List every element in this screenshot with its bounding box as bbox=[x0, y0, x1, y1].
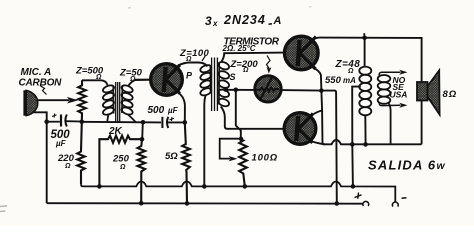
leader squiggle from mic label bbox=[40, 86, 47, 95]
wire V_C: T3 primary tap to upper rail bbox=[352, 87, 361, 187]
transformer T3 secondary winding bbox=[378, 75, 391, 104]
svg-text:500: 500 bbox=[148, 105, 165, 116]
svg-text:3: 3 bbox=[205, 14, 212, 28]
svg-text:2K: 2K bbox=[108, 126, 123, 137]
transformer T1 secondary bottom lead bbox=[128, 115, 136, 123]
svg-text:2Ω. 25°C: 2Ω. 25°C bbox=[222, 44, 256, 53]
junction V_C on common line bbox=[350, 142, 355, 147]
transistor Q3 bbox=[284, 113, 316, 145]
label MIC. A CARBON bbox=[19, 67, 63, 89]
junction tap/pot branch bbox=[234, 88, 239, 93]
transformer T1 secondary winding bbox=[121, 84, 134, 116]
junction Q2 emitter / thermistor bbox=[319, 88, 324, 93]
wire T3 primary bottom lead bbox=[364, 115, 366, 145]
scan speck top bbox=[128, 7, 131, 9]
svg-text:CARBON: CARBON bbox=[19, 78, 63, 89]
transformer T1 core bbox=[116, 82, 120, 122]
resistor 220 ohm bbox=[77, 122, 85, 185]
annotation NO SE USA bbox=[390, 75, 408, 100]
junction T3 primary bottom on common line bbox=[363, 142, 368, 147]
svg-text:Ω: Ω bbox=[185, 56, 192, 63]
wire Q2 emitter down (V_A) bbox=[312, 67, 323, 144]
wire Q1 collector to T2 primary bbox=[178, 63, 207, 67]
wire mic output with arrowhead to volume control bbox=[37, 99, 70, 101]
battery terminal minus bbox=[392, 202, 398, 207]
wire T1 secondary top to Q1 base bbox=[129, 80, 151, 86]
wire common node row y=122 bbox=[82, 121, 161, 124]
resistor 2K bbox=[99, 136, 142, 187]
wire T3 secondary bottom tap with arrow bbox=[379, 102, 400, 105]
leader squiggle to thermistor bbox=[267, 56, 271, 69]
transformer T1 primary top wire bbox=[82, 80, 108, 85]
title 3x 2N234-A bbox=[205, 13, 282, 28]
svg-text:Ω: Ω bbox=[242, 67, 249, 74]
svg-text:250: 250 bbox=[112, 154, 130, 165]
wire thermistor node to lower rail (V_B) bbox=[321, 91, 336, 204]
junction 5 ohm on lower rail bbox=[185, 201, 190, 206]
svg-text:S: S bbox=[230, 72, 236, 82]
svg-text:100Ω: 100Ω bbox=[252, 153, 278, 164]
volume control 500-ohm winding (zigzag with arrow tap) bbox=[78, 80, 86, 121]
capacitor C1 500uF bbox=[47, 114, 82, 127]
transistor Q2 bbox=[285, 36, 319, 70]
wire mic return (left vertical to lower rail) bbox=[33, 112, 47, 203]
svg-text:mA: mA bbox=[343, 76, 356, 85]
transformer T1 primary winding bbox=[102, 84, 115, 116]
lower rail (positive) bbox=[47, 202, 363, 205]
scan artifact bottom-left bbox=[0, 206, 7, 212]
thermistor TH bbox=[255, 76, 281, 102]
top rail bbox=[320, 38, 422, 82]
wire T2 secondary top to Q2 base bbox=[222, 53, 284, 62]
svg-text:x: x bbox=[212, 19, 218, 28]
node C junction bbox=[140, 137, 145, 142]
wire Q1 emitter down to node D bbox=[178, 93, 185, 123]
junction V_B on lower rail bbox=[335, 201, 340, 206]
junction 2K on upper rail bbox=[97, 184, 102, 189]
node A junction bbox=[80, 119, 85, 124]
svg-text:Ω: Ω bbox=[119, 164, 126, 171]
wire thermistor right to Q2 emitter node bbox=[281, 89, 321, 92]
junction V_C on upper rail bbox=[351, 184, 356, 189]
node T2 center tap bbox=[224, 87, 229, 92]
junction pot on upper rail bbox=[243, 184, 248, 189]
node D junction bbox=[183, 120, 188, 125]
speaker 8 ohm bbox=[417, 70, 440, 114]
leader tick Z=100 bbox=[202, 56, 205, 61]
node B junction bbox=[141, 120, 146, 125]
capacitor C2 500uF bbox=[162, 117, 174, 128]
transformer T2 core bbox=[212, 58, 218, 112]
upper rail (negative) bbox=[81, 182, 395, 203]
label TERMISTOR 2ohm 25C bbox=[222, 37, 280, 54]
svg-text:MIC. A: MIC. A bbox=[21, 67, 52, 78]
wire T3 secondary top tap with arrow bbox=[379, 72, 400, 76]
svg-text:Ω: Ω bbox=[347, 68, 354, 75]
svg-text:µF: µF bbox=[167, 106, 179, 115]
wire output stage common line y=144 bbox=[323, 140, 422, 144]
wire T2 primary bottom to upper rail bbox=[204, 96, 205, 187]
svg-text:550: 550 bbox=[325, 75, 342, 86]
speaker vertical line through driver bbox=[421, 100, 423, 144]
transistor Q1 bbox=[136, 64, 183, 96]
svg-text:8Ω: 8Ω bbox=[443, 89, 458, 100]
microphone MIC A (carbon) bbox=[23, 90, 37, 115]
wire Q3 collector up to V_A bbox=[311, 111, 323, 117]
wire T2 secondary bottom to Q3 base bbox=[221, 107, 285, 129]
wire T3 primary top lead bbox=[364, 38, 366, 68]
transformer T1 primary bottom lead bbox=[107, 115, 108, 123]
junction T2 primary on upper rail bbox=[202, 184, 207, 189]
battery terminal plus bbox=[363, 201, 369, 206]
wire tap branch down to 100 ohm pot bbox=[236, 90, 241, 140]
wire Q2 collector to top rail bbox=[312, 38, 320, 40]
pot wiper bracket with arrow bbox=[220, 139, 241, 159]
svg-text:USA: USA bbox=[390, 90, 408, 100]
junction 250 on lower rail bbox=[139, 201, 144, 206]
transformer T2 secondary winding S bbox=[217, 61, 230, 108]
transformer T3 primary winding bbox=[359, 67, 371, 116]
wire node B to node C bbox=[141, 122, 144, 139]
svg-text:P: P bbox=[186, 71, 193, 81]
resistor 5 ohm bbox=[182, 122, 190, 203]
junction pot top bbox=[239, 137, 243, 141]
svg-text:Ω: Ω bbox=[95, 74, 102, 81]
svg-text:5Ω: 5Ω bbox=[165, 151, 178, 162]
svg-text:SALIDA 6: SALIDA 6 bbox=[368, 158, 436, 173]
junction T3 primary top on top rail bbox=[362, 36, 367, 41]
svg-text:A: A bbox=[273, 15, 282, 27]
wire T3 secondary bottom lead bbox=[389, 103, 391, 145]
junction mic/C1 bbox=[44, 119, 49, 124]
svg-text:Ω: Ω bbox=[64, 163, 71, 170]
svg-text:2N234: 2N234 bbox=[223, 13, 266, 27]
svg-text:w: w bbox=[437, 160, 446, 172]
resistor 250 ohm bbox=[138, 139, 146, 203]
wire Q3 emitter to output common line bbox=[311, 141, 326, 144]
transformer T2 primary winding bbox=[199, 64, 212, 97]
wire center tap to thermistor bbox=[226, 89, 255, 91]
svg-text:µF: µF bbox=[55, 139, 67, 148]
potentiometer 100 ohm bbox=[239, 140, 247, 187]
